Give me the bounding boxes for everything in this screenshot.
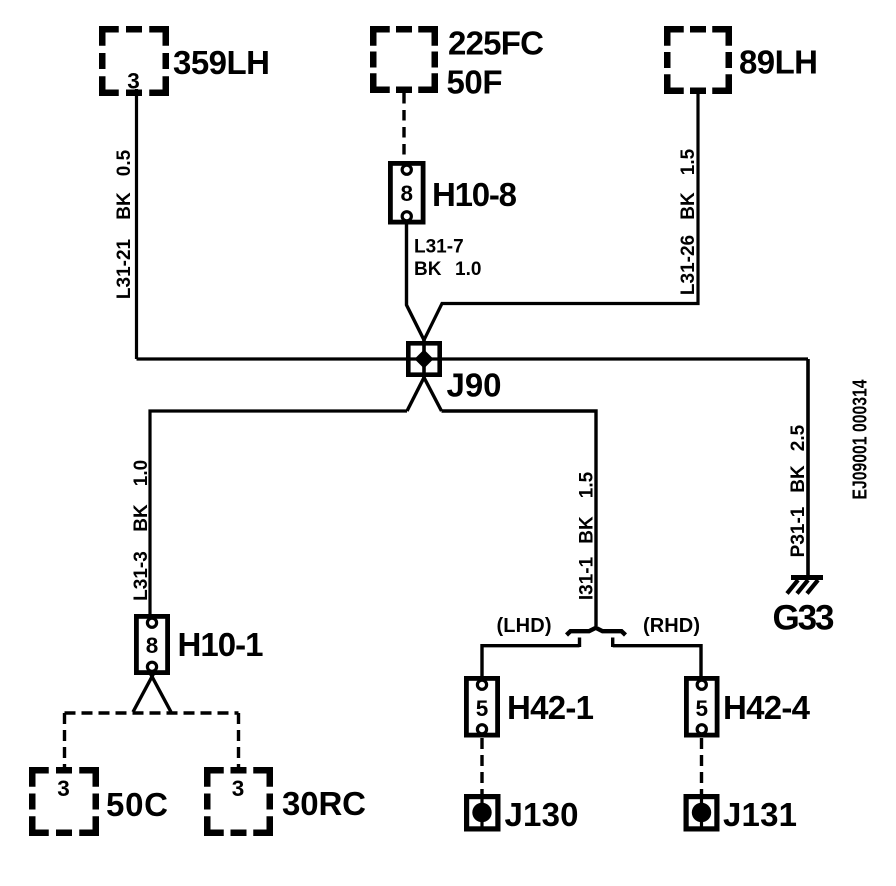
joint J131 stem (700, 794, 703, 831)
connector box 359LH (102, 29, 166, 93)
svg-text:L31-3: L31-3 (131, 551, 152, 601)
label G33 (773, 599, 835, 638)
wire label BK (P31-1) (788, 465, 809, 493)
ground symbol tine 1 (787, 580, 798, 594)
svg-text:50F: 50F (447, 64, 503, 101)
wire split below H10-1 (right diagonal) (149, 671, 171, 712)
dashed wire 225FC to H10-8 (402, 93, 405, 167)
wire label BK (L31-21) (114, 192, 135, 220)
wire label BK (L31-26) (678, 192, 699, 220)
svg-text:50C: 50C (106, 786, 168, 823)
svg-text:BK: BK (678, 192, 699, 220)
svg-text:(RHD): (RHD) (643, 615, 700, 637)
joint J131 box (686, 797, 717, 829)
wire label BK (L31-7) (414, 259, 442, 280)
svg-text:H10-1: H10-1 (178, 626, 264, 663)
wire label 1.5 (I31-1) (577, 471, 598, 498)
wire split below H10-1 (left diagonal) (133, 671, 155, 712)
svg-text:BK: BK (114, 192, 135, 220)
svg-text:BK: BK (131, 504, 152, 532)
dashed wire H42-4 to J131 (700, 738, 703, 796)
wire label L31-21 (114, 238, 135, 299)
connector H10-8 (390, 163, 423, 222)
wire label 2.5 (P31-1) (788, 424, 809, 451)
wire P31-1 (bus to ground G33) (806, 359, 810, 577)
svg-text:8: 8 (146, 633, 159, 658)
svg-text:G33: G33 (773, 599, 835, 638)
drawing number EJ09001 000314 (850, 379, 872, 500)
connector box 50C (32, 770, 96, 833)
connector box 30RC (207, 770, 270, 833)
wire label L31-7 (414, 237, 464, 258)
ground symbol bar (791, 575, 823, 580)
pin 3 (359LH) (127, 69, 140, 94)
wire branch below J90 (left diagonal) (407, 378, 424, 412)
wire branch below J90 (right diagonal) (424, 378, 442, 412)
connector box 225FC/50F (373, 29, 435, 90)
wire lower-right run (to H42 drop) (442, 411, 597, 626)
junction J90 solder dot (415, 350, 434, 369)
junction J90 vertical stem (422, 339, 426, 378)
joint J131 dot (692, 803, 711, 822)
svg-text:30RC: 30RC (282, 785, 366, 822)
svg-text:1.5: 1.5 (678, 148, 699, 175)
svg-text:(LHD): (LHD) (497, 615, 552, 637)
wire label L31-3 (131, 551, 152, 601)
wire L31-21 (359LH down to junction row) (135, 89, 138, 359)
splice right stub (611, 638, 614, 648)
wire to H42-1 (482, 646, 580, 676)
label (RHD) (643, 615, 700, 637)
svg-text:89LH: 89LH (739, 44, 818, 81)
wire label 0.5 (L31-21) (114, 149, 135, 176)
label H42-1 (507, 689, 594, 726)
label 50F (447, 64, 503, 101)
svg-text:J130: J130 (505, 796, 579, 833)
svg-text:5: 5 (695, 696, 708, 721)
wire label 1.0 (L31-3) (131, 460, 152, 486)
label 359LH (173, 44, 270, 81)
svg-text:P31-1: P31-1 (788, 506, 809, 557)
label H10-1 (178, 626, 264, 663)
label 89LH (739, 44, 818, 81)
dashed wire to 50C and 30RC (65, 713, 239, 771)
svg-text:H42-1: H42-1 (507, 689, 594, 726)
wire label L31-26 (678, 235, 699, 295)
joint J130 dot (472, 803, 491, 822)
svg-text:225FC: 225FC (448, 25, 544, 62)
connector H10-1 (136, 616, 167, 672)
svg-text:H10-8: H10-8 (432, 176, 517, 213)
svg-text:L31-26: L31-26 (678, 235, 699, 295)
wire L31-7 (H10-8 down to junction J90) (407, 224, 425, 340)
svg-text:H42-4: H42-4 (723, 689, 811, 726)
svg-text:J131: J131 (723, 796, 797, 833)
pin 3 (50C) (57, 776, 70, 801)
label (LHD) (497, 615, 552, 637)
svg-text:L31-21: L31-21 (114, 238, 135, 299)
wire lower-left run (to H10-1 drop) (150, 411, 407, 614)
label H10-8 (432, 176, 517, 213)
ground symbol tine 3 (807, 580, 818, 594)
label J131 (723, 796, 797, 833)
svg-text:I31-1: I31-1 (577, 556, 598, 600)
label J130 (505, 796, 579, 833)
connector H42-1 (466, 678, 497, 735)
joint J130 stem (480, 794, 483, 831)
svg-text:8: 8 (400, 181, 413, 206)
wire to H42-4 (613, 646, 701, 676)
svg-text:BK: BK (577, 516, 598, 544)
svg-text:359LH: 359LH (173, 44, 270, 81)
svg-text:1.0: 1.0 (131, 460, 152, 486)
svg-text:5: 5 (476, 696, 489, 721)
svg-text:EJ09001 000314: EJ09001 000314 (850, 379, 872, 500)
wire label BK (L31-3) (131, 504, 152, 532)
label 50C (106, 786, 168, 823)
connector box 89LH (667, 29, 729, 91)
svg-text:1.0: 1.0 (455, 259, 481, 280)
svg-text:2.5: 2.5 (788, 424, 809, 451)
svg-text:BK: BK (788, 465, 809, 493)
svg-text:L31-7: L31-7 (414, 237, 464, 258)
dashed wire H42-1 to J130 (480, 738, 483, 796)
svg-text:0.5: 0.5 (114, 149, 135, 176)
connector H42-4 (686, 678, 717, 735)
wire label I31-1 (577, 556, 598, 600)
splice bar (LHD/RHD take-off) (567, 628, 626, 635)
wire main bus (left end to ground drop) (137, 357, 809, 360)
svg-text:3: 3 (57, 776, 70, 801)
wire label 1.0 (L31-7) (455, 259, 481, 280)
ground symbol tine 2 (797, 580, 808, 594)
junction J90 box (408, 343, 439, 374)
wire label P31-1 (788, 506, 809, 557)
label J90 (447, 367, 502, 404)
svg-text:3: 3 (232, 776, 245, 801)
label H42-4 (723, 689, 811, 726)
wire L31-26 (89LH down and left to junction J90) (424, 91, 698, 340)
svg-text:BK: BK (414, 259, 442, 280)
joint J130 box (467, 797, 498, 829)
svg-text:1.5: 1.5 (577, 471, 598, 498)
label 225FC (448, 25, 544, 62)
pin 3 (30RC) (232, 776, 245, 801)
svg-text:J90: J90 (447, 367, 502, 404)
wire label BK (I31-1) (577, 516, 598, 544)
wire label 1.5 (L31-26) (678, 148, 699, 175)
splice left stub (578, 638, 581, 648)
label 30RC (282, 785, 366, 822)
